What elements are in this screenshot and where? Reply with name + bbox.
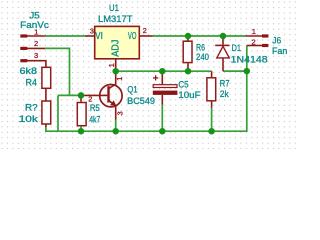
- svg-text:3: 3: [116, 111, 125, 115]
- svg-text:R5: R5: [90, 103, 100, 113]
- svg-text:1: 1: [34, 28, 38, 37]
- svg-text:ADJ: ADJ: [110, 40, 121, 57]
- svg-text:2: 2: [88, 95, 92, 104]
- svg-text:R7: R7: [220, 79, 230, 89]
- svg-text:Fan: Fan: [272, 46, 287, 56]
- svg-text:Q1: Q1: [127, 84, 137, 94]
- svg-text:LM317T: LM317T: [98, 14, 133, 24]
- svg-text:R6: R6: [196, 43, 205, 53]
- svg-text:R4: R4: [26, 78, 38, 88]
- svg-text:VO: VO: [128, 31, 137, 42]
- svg-text:VI: VI: [95, 31, 103, 42]
- svg-text:BC549: BC549: [127, 96, 155, 106]
- svg-text:R?: R?: [25, 102, 38, 112]
- svg-text:1: 1: [252, 27, 256, 36]
- svg-text:D1: D1: [232, 43, 242, 53]
- svg-text:U1: U1: [109, 3, 119, 13]
- svg-text:1: 1: [115, 77, 124, 81]
- svg-text:10uF: 10uF: [178, 90, 201, 100]
- svg-text:3: 3: [34, 51, 38, 60]
- svg-text:10k: 10k: [19, 114, 39, 124]
- svg-text:2: 2: [143, 26, 147, 35]
- svg-text:J5: J5: [29, 11, 39, 21]
- svg-text:C5: C5: [178, 80, 188, 90]
- svg-text:1N4148: 1N4148: [231, 55, 268, 65]
- svg-text:2: 2: [34, 39, 38, 48]
- svg-text:1: 1: [107, 63, 116, 67]
- svg-text:4k7: 4k7: [89, 114, 100, 124]
- svg-text:6k8: 6k8: [20, 66, 38, 76]
- svg-text:2k: 2k: [220, 89, 229, 99]
- svg-text:2: 2: [252, 38, 256, 47]
- svg-text:J6: J6: [272, 35, 281, 45]
- svg-text:240: 240: [196, 52, 209, 62]
- svg-text:3: 3: [90, 27, 94, 36]
